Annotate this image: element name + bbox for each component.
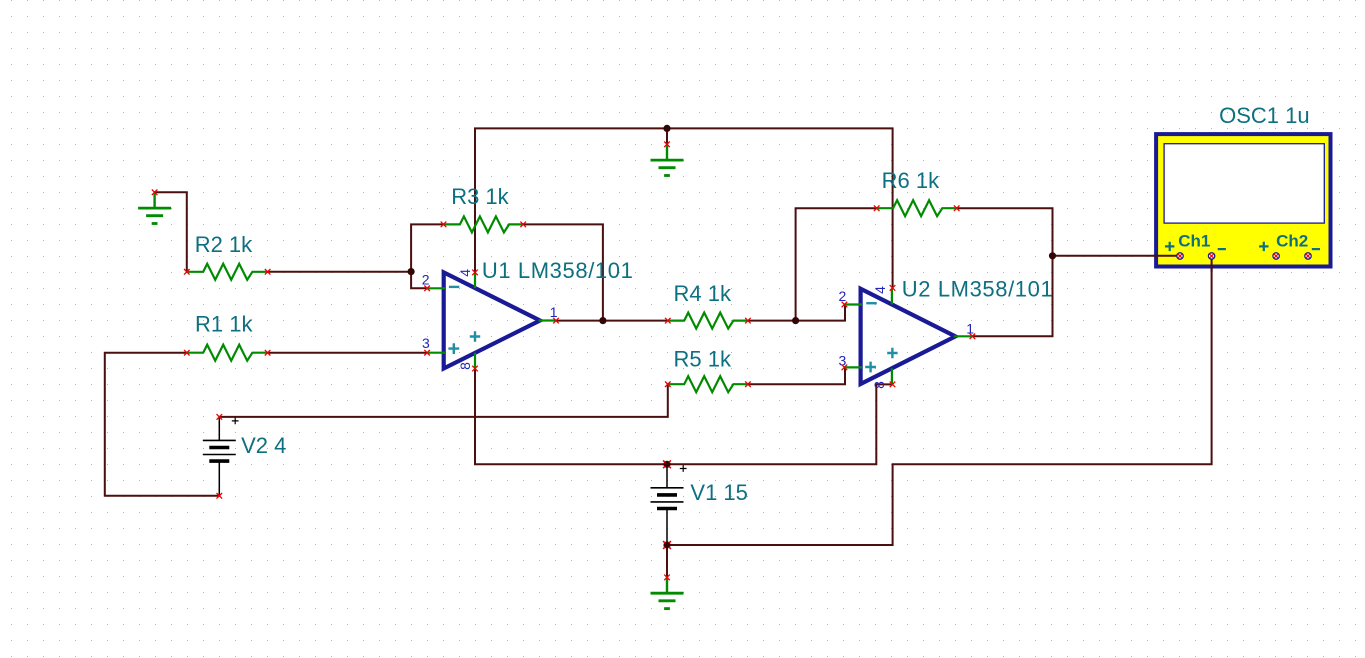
svg-text:2: 2 [839,288,847,304]
node top rail junction [663,125,670,132]
ground G2 (top middle) [651,144,684,175]
resistor R5 [668,376,749,392]
terminal x R6 right terminal [954,205,960,211]
svg-text:R3 1k: R3 1k [451,184,509,209]
svg-text:8: 8 [457,362,473,370]
svg-text:Ch2: Ch2 [1276,232,1308,251]
wire R1 left to V2 negative [105,353,220,496]
op-amp U1 triangle [444,272,540,368]
battery V1 plus mark [680,465,687,472]
oscilloscope OSC1 body [1156,134,1330,266]
terminal x V2 negative terminal [217,493,223,499]
oscilloscope Ch1+ terminal [1177,253,1183,259]
op-amp U1 minus mark [449,286,459,288]
wire node A to U1 pin2 [411,272,427,289]
oscilloscope Ch2 minus mark [1312,248,1320,250]
wire top ground stub [666,128,668,144]
svg-text:R1 1k: R1 1k [195,311,253,336]
terminal x R2 right terminal [265,269,271,275]
terminal x V1 positive terminal [663,460,671,468]
op-amp U1 plus mark (center) [470,331,480,341]
wire R3 right down to U1 output node [523,224,603,320]
svg-text:R2 1k: R2 1k [195,232,253,257]
terminal x U2 pin 4 terminal [890,285,896,291]
terminal x R4 left terminal [665,318,671,324]
op-amp U2 minus mark [866,302,876,304]
terminal x U2 pin 8 terminal [890,382,896,388]
op-amp U1 pin 4 lead [474,272,476,288]
terminal x G3 terminal [664,575,670,581]
terminal x U1 pin 3 terminal [424,350,430,356]
terminal x G2 terminal [664,142,670,148]
wire overlay to Ch1+ over scope body [1155,255,1177,257]
op-amp U2 plus mark (pin3) [865,362,876,373]
node V1 positive [663,461,670,468]
svg-text:V1 15: V1 15 [690,480,748,505]
node U1 output [599,317,606,324]
svg-text:U2 LM358/101: U2 LM358/101 [902,276,1054,301]
battery V2 plus mark [232,418,239,425]
op-amp U1 pin 3 lead [427,352,445,354]
battery V2 [203,417,236,496]
wire U1 output to R4 left [556,320,668,322]
wire ground G1 to R2 left [155,192,187,271]
ground G1 (top left) [138,192,171,223]
resistor R4 [668,313,749,329]
wire U1 pin8 V- rail to U2 pin8 [475,369,893,465]
wire R4 right to U2 pin2 [748,305,845,321]
oscilloscope Ch1 plus mark [1165,242,1174,251]
oscilloscope Ch2 plus mark [1259,242,1268,251]
terminal x R3 left terminal [441,222,447,228]
svg-text:2: 2 [422,272,430,288]
wire R1 right to U1 pin3 [268,352,428,354]
oscilloscope OSC1 screen [1164,144,1324,223]
svg-text:R5 1k: R5 1k [674,346,732,371]
terminal x U1 pin 4 terminal [472,270,478,276]
terminal x R2 left terminal [184,269,190,275]
terminal x U2 pin 3 terminal [842,365,848,371]
node A (U1 inverting input) [408,268,415,275]
terminal x R5 left terminal [665,381,671,387]
op-amp U2 triangle [861,289,956,384]
op-amp U1 pin 2 lead [427,287,445,289]
svg-text:R6 1k: R6 1k [882,168,940,193]
oscilloscope Ch2- terminal [1305,253,1311,259]
resistor R3 [444,216,525,232]
node B (U2 inverting input) [792,317,799,324]
wire R2 right to node A [268,271,412,273]
battery V1 [651,464,684,545]
node V1 negative [663,541,670,548]
op-amp U2 plus mark (center) [887,348,897,358]
op-amp U1 pin 8 lead [474,353,476,369]
op-amp U2 pin 8 lead [891,368,893,384]
node U2 output [1049,252,1056,259]
op-amp U2 pin 3 lead [844,366,862,368]
wire node A up to R3 left [411,224,443,271]
svg-text:R4 1k: R4 1k [674,281,732,306]
svg-text:OSC1 1u: OSC1 1u [1219,103,1310,128]
wire U2 output to scope Ch1+ [972,256,1176,336]
terminal x U1 pin 2 terminal [424,286,430,292]
svg-text:4: 4 [872,286,888,294]
wire V1 negative to scope Ch1- [667,259,1212,545]
op-amp U2 pin 1 lead [954,335,973,337]
terminal x R6 left terminal [874,205,880,211]
terminal x R1 right terminal [265,350,271,356]
svg-text:U1 LM358/101: U1 LM358/101 [482,258,634,283]
terminal x R1 left terminal [184,350,190,356]
terminal x V1 negative terminal [663,541,671,549]
terminal x G1 terminal [152,190,158,196]
svg-text:3: 3 [422,335,430,351]
resistor R2 [187,264,268,280]
op-amp U2 pin 4 lead [891,289,893,305]
terminal x U2 pin 2 terminal [842,302,848,308]
wire ground rail top (U1 pin4 / U2 pin4) [475,128,893,288]
oscilloscope Ch2+ terminal [1273,253,1279,259]
op-amp U2 pin 2 lead [844,303,862,305]
wire overlay from Ch1- over scope body [1211,259,1213,271]
wire V2 positive to R5 left [219,384,668,417]
op-amp U1 pin 1 lead [539,319,557,321]
wire R5 right to U2 pin3 [748,367,845,384]
terminal x U1 pin 1 terminal [553,318,559,324]
oscilloscope Ch1- terminal [1208,253,1214,259]
svg-text:Ch1: Ch1 [1178,232,1210,251]
terminal x U2 pin 1 terminal [970,334,976,340]
terminal x R4 right terminal [745,318,751,324]
terminal x U1 pin 8 terminal [472,366,478,372]
wire node B up to R6 left [796,208,877,320]
svg-text:4: 4 [457,269,473,277]
wire R6 right down to U2 output node [957,208,1053,256]
svg-text:8: 8 [871,381,887,389]
oscilloscope Ch1 minus mark [1218,248,1226,250]
resistor R6 [877,200,958,216]
wire V1 negative to ground G3 [666,545,668,577]
op-amp U1 plus mark (pin3) [448,343,459,354]
svg-text:V2 4: V2 4 [241,433,286,458]
terminal x R5 right terminal [745,381,751,387]
resistor R1 [187,345,268,361]
terminal x R3 right terminal [520,222,526,228]
terminal x V2 positive terminal [217,414,223,420]
ground G3 (bottom) [651,577,684,608]
